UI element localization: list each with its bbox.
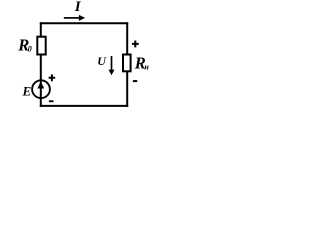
svg-text:I: I xyxy=(74,0,82,15)
minus sign near E xyxy=(49,100,54,102)
voltage source E (circle) xyxy=(32,80,50,98)
svg-text:E: E xyxy=(22,83,32,98)
wire: right vertical xyxy=(126,22,128,107)
resistor Rn load (box) xyxy=(123,55,131,72)
svg-text:0: 0 xyxy=(28,45,32,54)
svg-text:н: н xyxy=(144,63,149,72)
wire: left vertical xyxy=(40,22,42,107)
voltage arrow U (points down) xyxy=(111,56,113,71)
plus sign near E xyxy=(49,74,56,81)
plus sign near Rn xyxy=(132,41,139,48)
wire: bottom horizontal xyxy=(40,105,128,107)
wire: top horizontal xyxy=(40,22,128,24)
resistor R0 (box) xyxy=(37,37,45,55)
minus sign near Rn xyxy=(133,80,137,82)
svg-text:U: U xyxy=(97,54,107,68)
voltage source E arrowhead (points up) xyxy=(37,81,44,88)
current arrow I (top) xyxy=(64,17,79,19)
